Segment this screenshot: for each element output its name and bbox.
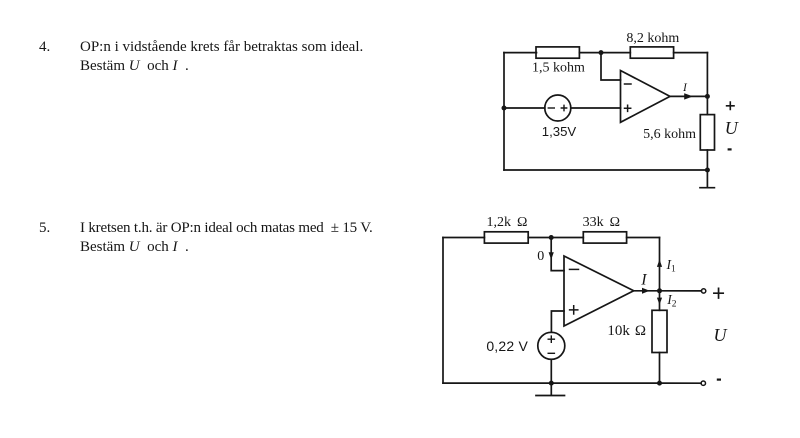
svg-text:33k Ω: 33k Ω bbox=[583, 215, 620, 230]
source polarity minus bbox=[548, 107, 554, 109]
wire: top rail right segment bbox=[674, 52, 708, 54]
svg-text:10kΩ: 10kΩ bbox=[607, 323, 646, 339]
svg-text:8,2 kohm: 8,2 kohm bbox=[626, 31, 679, 46]
voltage source 0,22 V bbox=[538, 332, 565, 359]
ground (circuit 2) bbox=[536, 383, 565, 395]
problem 5 text bbox=[80, 219, 373, 256]
svg-text:I: I bbox=[640, 272, 647, 289]
wire: inverting input bbox=[601, 53, 621, 80]
svg-text:I: I bbox=[682, 82, 688, 94]
wire: bottom rail to - terminal bbox=[660, 382, 702, 384]
problem 4 text bbox=[80, 38, 363, 75]
arrow: current I1 (up) bbox=[657, 259, 662, 267]
svg-text:5,6 kohm: 5,6 kohm bbox=[643, 127, 696, 142]
wire: left rail bbox=[503, 53, 505, 170]
svg-text:U: U bbox=[725, 118, 739, 138]
wire: op-amp output (c2) bbox=[634, 290, 660, 292]
svg-text:1,5 kohm: 1,5 kohm bbox=[532, 61, 585, 76]
svg-text:1,35V: 1,35V bbox=[542, 124, 577, 139]
wire: top rail middle segment (c2) bbox=[528, 237, 583, 239]
node: output node bbox=[705, 94, 710, 99]
label - terminal (c2) bbox=[717, 379, 721, 381]
op-amp U1 minus label bbox=[625, 83, 632, 85]
node: bottom output junction (c2) bbox=[657, 381, 662, 386]
voltage source 1,35V bbox=[545, 95, 571, 121]
resistor 8,2 kohm bbox=[630, 47, 673, 58]
wire: top rail left segment bbox=[504, 52, 537, 54]
resistor 5,6 kohm bbox=[700, 115, 714, 150]
wire: op-amp output bbox=[670, 95, 707, 97]
wire: top rail right segment (c2) bbox=[627, 237, 660, 239]
op-amp U1 plus label bbox=[625, 105, 631, 111]
resistor 33k ohm bbox=[583, 232, 626, 243]
wire: non-inverting input (c2) bbox=[551, 311, 564, 332]
wire: source left lead bbox=[504, 107, 545, 109]
wire: right feedback drop bbox=[706, 53, 708, 97]
wire: source to non-inverting input bbox=[571, 107, 621, 109]
resistor 1,5 kohm bbox=[536, 47, 579, 58]
wire: output to + terminal bbox=[660, 290, 702, 292]
arrow: output current I (c2) bbox=[642, 288, 650, 294]
terminal + (open circle) bbox=[701, 289, 705, 293]
op-amp U2 plus label bbox=[570, 306, 578, 314]
arrow: current I2 (down) bbox=[657, 298, 662, 305]
node: bottom junction bbox=[705, 168, 710, 173]
svg-text:1,2k Ω: 1,2k Ω bbox=[487, 215, 528, 230]
op-amp U2 minus label bbox=[570, 268, 579, 270]
wire: feedback drop (c2) bbox=[659, 238, 661, 291]
problem 5 number bbox=[39, 219, 50, 238]
wire: top rail left segment (c2) bbox=[443, 237, 484, 239]
wire: bottom rail (c2) bbox=[443, 382, 660, 384]
node: left rail junction bbox=[502, 106, 507, 111]
source polarity plus (c2) bbox=[548, 336, 554, 342]
source polarity plus bbox=[561, 105, 566, 110]
label - (circuit 1 output) bbox=[728, 148, 732, 150]
wire: resistor to bottom rail bbox=[706, 150, 708, 170]
wire: top rail middle segment bbox=[579, 52, 630, 54]
wire: bottom rail bbox=[504, 169, 707, 171]
wire: inverting input drop (c2) bbox=[551, 238, 564, 271]
wire: source to bottom rail (c2) bbox=[550, 359, 552, 383]
svg-text:U: U bbox=[714, 325, 728, 345]
svg-text:0: 0 bbox=[537, 249, 544, 264]
resistor 10k ohm bbox=[652, 310, 667, 352]
op-amp U2 bbox=[564, 256, 634, 326]
svg-text:I2: I2 bbox=[666, 292, 677, 310]
arrow: output current I bbox=[684, 93, 693, 99]
wire: output to resistor bbox=[706, 96, 708, 114]
node: summing node (c2) bbox=[549, 235, 554, 240]
node: source bottom junction bbox=[549, 381, 554, 386]
op-amp U1 bbox=[621, 71, 671, 123]
node: feedback node bbox=[599, 50, 604, 55]
wire: left rail (c2) bbox=[442, 238, 444, 384]
terminal - (open circle) bbox=[701, 381, 705, 385]
problem 4 number bbox=[39, 38, 50, 57]
wire: 10k resistor to bottom rail bbox=[659, 353, 661, 384]
source polarity minus (c2) bbox=[548, 352, 554, 354]
wire: node to 10k resistor bbox=[659, 291, 661, 311]
resistor 1,2k ohm bbox=[484, 232, 528, 243]
svg-text:0,22 V: 0,22 V bbox=[486, 338, 528, 354]
node: output node (c2) bbox=[657, 288, 662, 293]
arrow: 0 current (down) bbox=[549, 252, 554, 259]
svg-text:I1: I1 bbox=[666, 257, 677, 275]
ground (circuit 1) bbox=[700, 170, 714, 188]
label + (circuit 1 output) bbox=[727, 102, 734, 109]
label + terminal (c2) bbox=[714, 288, 723, 298]
